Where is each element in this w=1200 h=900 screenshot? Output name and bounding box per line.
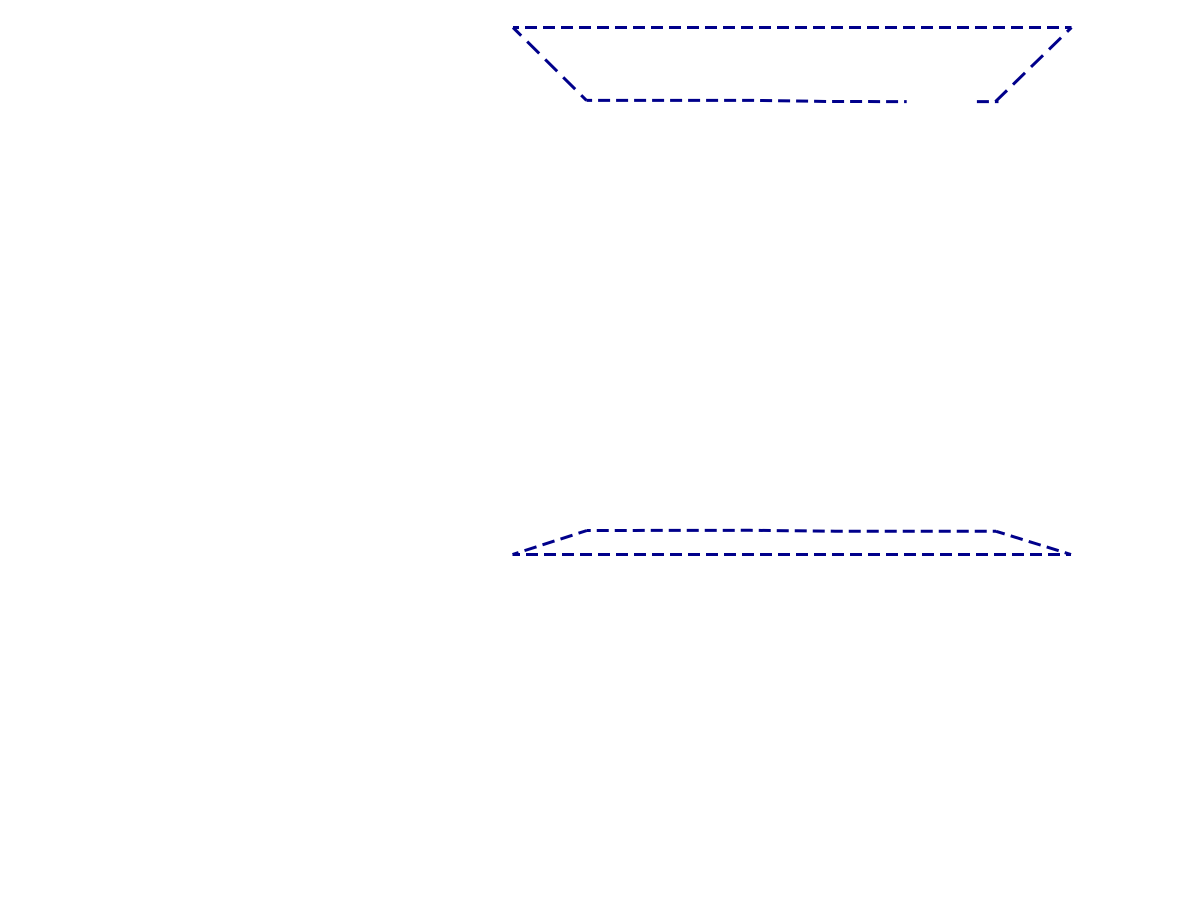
upper trapezoid bottom edge short right segment (dashed) [977, 100, 999, 103]
upper trapezoid left slant edge (dashed) [513, 28, 587, 101]
upper trapezoid top edge (dashed) [513, 26, 1072, 29]
lower flat trapezoid right slant edge (dashed) [996, 531, 1071, 554]
lower flat trapezoid left slant edge (dashed) [513, 531, 588, 555]
lower flat trapezoid bottom edge (dashed) [513, 553, 1072, 556]
upper trapezoid right slant edge (dashed) [996, 28, 1072, 102]
upper trapezoid bottom edge left segment (dashed) [587, 100, 907, 101]
lower flat trapezoid top edge (dashed) [587, 530, 996, 531]
